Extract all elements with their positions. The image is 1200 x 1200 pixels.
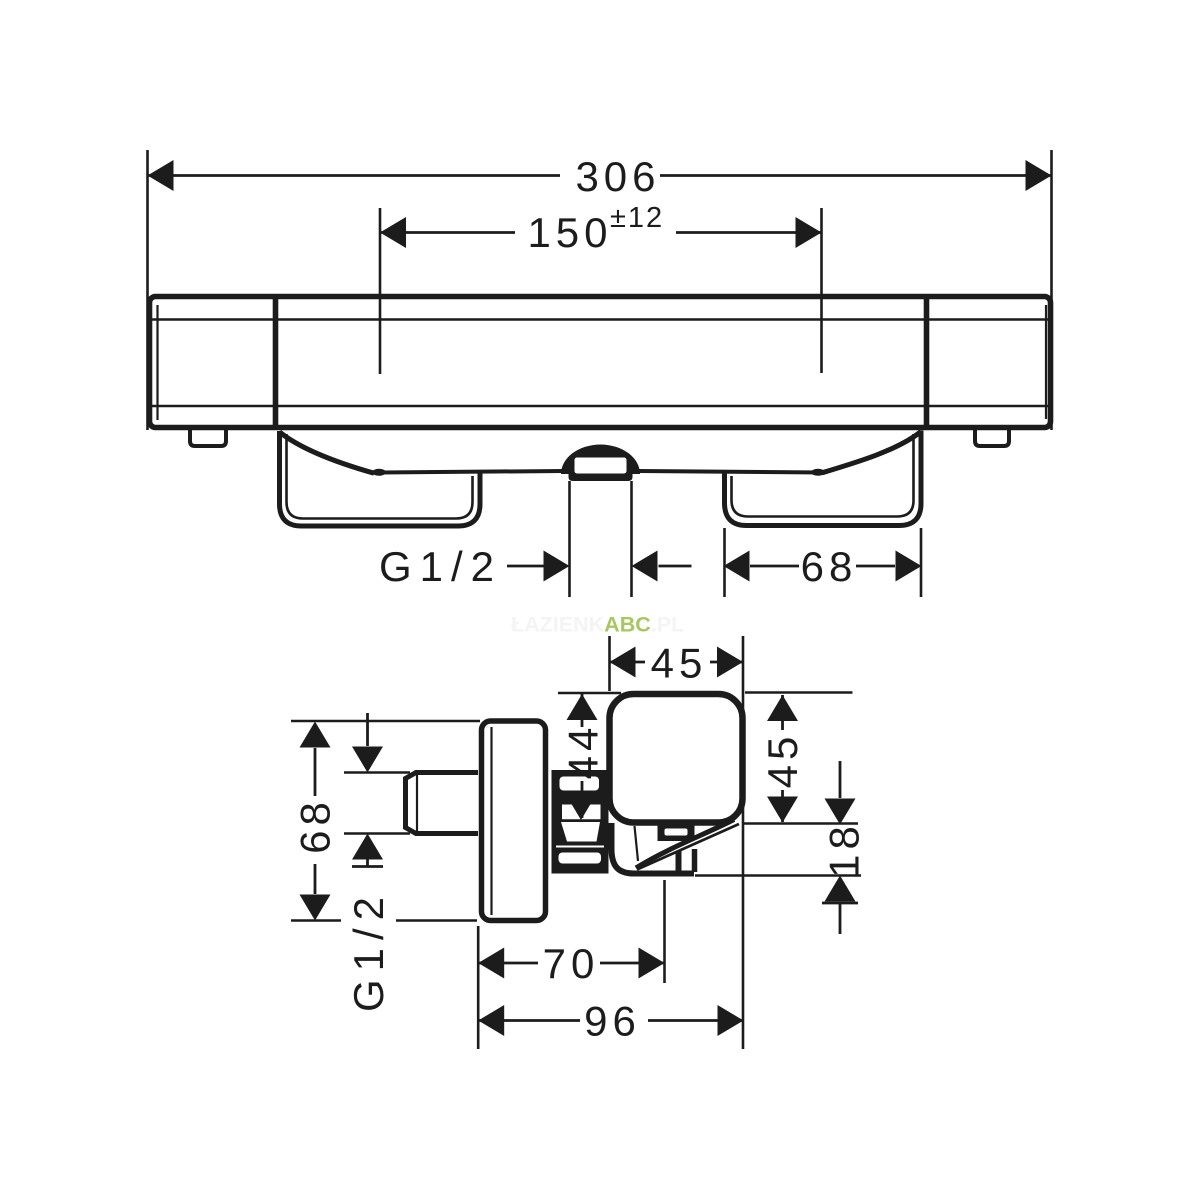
- svg-text:150: 150: [527, 209, 612, 256]
- svg-text:306: 306: [575, 153, 660, 200]
- svg-text:G1/2: G1/2: [345, 889, 392, 1012]
- svg-text:70: 70: [543, 940, 600, 987]
- svg-text:ŁAZIENKABC.PL: ŁAZIENKABC.PL: [511, 613, 684, 637]
- svg-text:45: 45: [651, 640, 708, 687]
- svg-text:±12: ±12: [610, 202, 664, 234]
- svg-text:44: 44: [560, 723, 607, 780]
- svg-text:18: 18: [821, 821, 868, 878]
- svg-text:96: 96: [584, 998, 641, 1045]
- svg-text:68: 68: [801, 543, 858, 590]
- svg-text:G1/2: G1/2: [379, 543, 502, 590]
- svg-text:45: 45: [759, 732, 806, 789]
- svg-text:68: 68: [292, 797, 339, 854]
